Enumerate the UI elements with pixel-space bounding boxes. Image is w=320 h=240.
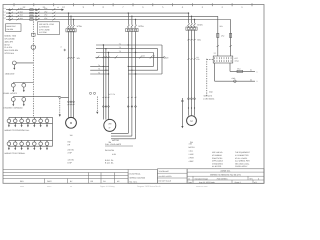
svg-text:T6: T6 xyxy=(98,71,100,74)
svg-text:460V 3PH: 460V 3PH xyxy=(5,40,14,43)
svg-text:NOTES: NOTES xyxy=(189,146,196,149)
svg-text:1SOLVENT: 1SOLVENT xyxy=(5,73,16,76)
svg-text:PANEL LIGHTS: PANEL LIGHTS xyxy=(4,92,18,95)
svg-text:6 6A 1 2A: 6 6A 1 2A xyxy=(105,159,114,162)
svg-text:3 PH 5 WIRE: 3 PH 5 WIRE xyxy=(39,28,50,31)
svg-text:Diagram 7500 Series Rev B: Diagram 7500 Series Rev B xyxy=(137,185,161,188)
svg-text:ELECTRICAL: ELECTRICAL xyxy=(130,173,141,176)
svg-text:1 ALL: 1 ALL xyxy=(189,150,194,153)
svg-text:7500 SERIES: 7500 SERIES xyxy=(216,177,228,180)
svg-text:M: M xyxy=(190,120,192,123)
svg-text:THE EQUIPMENT: THE EQUIPMENT xyxy=(235,151,251,154)
svg-text:SEE NOTE 4 FOR: SEE NOTE 4 FOR xyxy=(39,23,55,26)
svg-text:CHASSIS X GROUND: CHASSIS X GROUND xyxy=(4,107,24,110)
svg-text:4.5 KW: 4.5 KW xyxy=(68,158,74,161)
svg-text:X1: X1 xyxy=(250,69,252,72)
svg-text:MODEL 7500: MODEL 7500 xyxy=(5,35,16,38)
svg-text:STANDARDS: STANDARDS xyxy=(212,162,224,165)
svg-text:IS CONNECTED: IS CONNECTED xyxy=(235,154,249,157)
svg-text:WIRING SCHEMATIC NO 30 4 R1: WIRING SCHEMATIC NO 30 4 R1 xyxy=(210,173,242,176)
svg-text:T5: T5 xyxy=(98,68,100,71)
svg-text:APPLICABLE: APPLICABLE xyxy=(212,160,224,163)
svg-text:CODES APPLY: CODES APPLY xyxy=(235,165,248,168)
svg-text:L1: L1 xyxy=(57,6,59,9)
svg-text:3CON: 3CON xyxy=(197,23,203,26)
svg-text:3 HP: 3 HP xyxy=(68,152,73,155)
svg-text:1M: 1M xyxy=(70,134,73,137)
svg-text:DATE: DATE xyxy=(47,180,52,183)
svg-text:1OL: 1OL xyxy=(77,57,81,60)
svg-text:X2: X2 xyxy=(250,78,252,81)
svg-text:xx: xx xyxy=(70,186,72,188)
svg-text:AT ALL LOADS: AT ALL LOADS xyxy=(235,157,248,160)
svg-text:xxx x: xxx x xyxy=(47,186,51,188)
svg-text:xxxxx xx xxxx: xxxxx xx xxxx xyxy=(196,186,208,188)
svg-text:KW: KW xyxy=(68,141,71,144)
svg-text:ATI WIRING: ATI WIRING xyxy=(212,154,222,157)
svg-text:of 1: of 1 xyxy=(254,181,257,184)
svg-text:Aug 13, 2003 Scale: Aug 13, 2003 Scale xyxy=(199,181,215,184)
svg-text:NEC AND LOCAL: NEC AND LOCAL xyxy=(235,162,249,165)
svg-text:SCCR 5KA: SCCR 5KA xyxy=(5,52,15,55)
svg-text:T3: T3 xyxy=(119,50,121,53)
svg-text:WIRING TO EXTERNAL: WIRING TO EXTERNAL xyxy=(5,152,26,155)
svg-text:FULL LOAD AMPS: FULL LOAD AMPS xyxy=(105,143,122,146)
svg-text:1CON: 1CON xyxy=(77,25,83,28)
svg-text:SW 60A: SW 60A xyxy=(7,28,14,31)
svg-text:AS NOTED: AS NOTED xyxy=(212,165,222,168)
svg-text:T4: T4 xyxy=(98,64,100,67)
svg-text:xxxx: xxxx xyxy=(20,186,24,188)
svg-text:H1: H1 xyxy=(196,56,198,59)
svg-text:WIRING TO CONTROLS ALL: WIRING TO CONTROLS ALL xyxy=(5,129,30,132)
svg-text:CPT: CPT xyxy=(235,57,238,60)
svg-text:60 HZ: 60 HZ xyxy=(5,43,11,46)
svg-text:UNLESS NOTED: UNLESS NOTED xyxy=(159,175,173,178)
svg-text:2: 2 xyxy=(257,80,258,83)
svg-text:T2: T2 xyxy=(119,46,121,49)
svg-text:MAX FUSE 60A: MAX FUSE 60A xyxy=(5,49,19,52)
svg-text:2.2 KW: 2.2 KW xyxy=(68,149,74,152)
svg-text:WIRING DIAGRAM: WIRING DIAGRAM xyxy=(130,177,146,180)
svg-text:MAIN DISC: MAIN DISC xyxy=(7,25,17,28)
svg-text:MOTOR: MOTOR xyxy=(112,139,120,142)
svg-text:PRACTICES: PRACTICES xyxy=(212,157,223,160)
svg-text:Figure 4-5 Wiring: Figure 4-5 Wiring xyxy=(100,185,115,188)
svg-text:3OL: 3OL xyxy=(197,39,201,42)
svg-text:3 PER: 3 PER xyxy=(189,157,195,160)
svg-text:NO. SD-1: NO. SD-1 xyxy=(130,180,138,183)
svg-text:T1: T1 xyxy=(119,43,121,46)
svg-text:8 4A 1 6A: 8 4A 1 6A xyxy=(105,162,114,165)
svg-text:2M: 2M xyxy=(108,123,111,126)
svg-text:2 SEE: 2 SEE xyxy=(189,153,195,156)
svg-text:ALL WIRING PER: ALL WIRING PER xyxy=(235,160,250,163)
svg-text:2CON: 2CON xyxy=(138,25,144,28)
svg-text:SYSTEM: SYSTEM xyxy=(39,31,47,34)
svg-text:FLA 42 A: FLA 42 A xyxy=(5,46,13,49)
svg-text:S/N 123456: S/N 123456 xyxy=(5,38,15,41)
svg-text:2M 1M 3M: 2M 1M 3M xyxy=(105,149,114,152)
svg-text:Standard Design: Standard Design xyxy=(195,177,208,180)
svg-text:Date: Date xyxy=(188,181,192,184)
svg-text:6 HP: 6 HP xyxy=(68,161,73,164)
svg-text:TOLERANCE: TOLERANCE xyxy=(159,170,170,173)
svg-text:ALTERNATE: ALTERNATE xyxy=(39,26,50,29)
svg-text:SEE LMI NO.: SEE LMI NO. xyxy=(212,151,223,154)
svg-text:DO NOT SCALE: DO NOT SCALE xyxy=(159,180,172,183)
svg-text:T4 T5 T6: T4 T5 T6 xyxy=(108,93,115,96)
svg-text:ACME CO.: ACME CO. xyxy=(221,170,231,173)
svg-text:SEE NOTE: SEE NOTE xyxy=(204,94,213,97)
svg-text:Sheet 1: Sheet 1 xyxy=(235,181,241,184)
svg-text:1: 1 xyxy=(257,70,258,73)
svg-text:1 GRD 8AWG: 1 GRD 8AWG xyxy=(203,98,215,101)
